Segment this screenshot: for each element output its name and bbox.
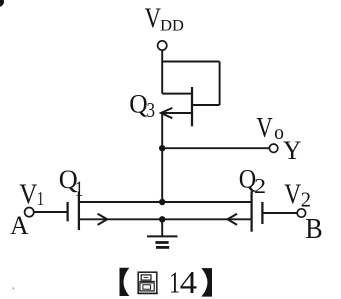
label Q3	[129, 88, 155, 122]
svg-text:4: 4	[180, 264, 197, 299]
node source rail junction	[159, 216, 165, 222]
terminal A	[25, 208, 34, 217]
caption bracket left	[120, 268, 130, 296]
svg-text:1: 1	[37, 188, 44, 210]
Q3 drain lead	[162, 93, 192, 95]
svg-text:1: 1	[169, 265, 180, 299]
arrow Q1 source current	[98, 214, 108, 225]
wire Q3 source down to drain rail	[161, 113, 163, 202]
caption bracket right	[201, 268, 212, 297]
caption character inner bottom box	[140, 283, 154, 291]
terminal VDD	[158, 41, 167, 50]
svg-text:V: V	[19, 179, 37, 211]
node drain rail junction	[159, 199, 165, 205]
svg-text:Y: Y	[283, 136, 301, 165]
label VDD	[145, 4, 185, 35]
svg-text:V: V	[284, 180, 301, 211]
arrow Q2 source current	[228, 214, 238, 225]
svg-text:DD: DD	[160, 16, 184, 34]
stray speck bottom-left	[12, 287, 14, 289]
Q2 gate lead wire	[262, 212, 297, 214]
svg-text:A: A	[10, 211, 28, 240]
label V2	[284, 180, 311, 212]
svg-text:V: V	[145, 4, 162, 35]
Q1 gate lead wire	[34, 211, 68, 213]
wire Q3 gate-drain loop top	[162, 61, 219, 63]
terminal Y	[269, 144, 277, 152]
ground bar 3	[156, 246, 169, 249]
wire output node to terminal Y	[162, 147, 269, 149]
caption number 14	[169, 264, 197, 299]
wire Q3 loop bottom to channel	[192, 104, 220, 106]
ground bar 2	[155, 241, 168, 244]
caption character inner top mouth	[141, 275, 151, 280]
ground stem	[161, 219, 163, 236]
stray mark top-left corner	[0, 0, 4, 7]
transistor Q2 channel	[250, 191, 252, 231]
svg-text:3: 3	[147, 98, 156, 122]
transistor Q1 channel	[78, 192, 80, 231]
svg-text:2: 2	[254, 174, 266, 198]
svg-text:1: 1	[75, 176, 84, 201]
transistor Q3 channel	[191, 87, 193, 126]
caption character innermost box	[143, 285, 151, 289]
caption character outer bottom bar	[137, 292, 157, 294]
Q3 source lead	[161, 112, 192, 114]
caption character tu (figure) outer box	[138, 272, 157, 293]
caption character tick in top mouth	[144, 277, 149, 279]
terminal B	[297, 209, 305, 217]
label V1	[19, 179, 44, 211]
node output junction	[159, 145, 165, 151]
wire VDD down to Q3 drain lead	[161, 50, 163, 93]
caption character middle stroke	[139, 280, 155, 282]
Q3 source arrowhead	[161, 108, 172, 118]
wire Q3 loop right side	[219, 62, 221, 106]
svg-text:2: 2	[301, 188, 311, 211]
label Q2	[239, 164, 266, 198]
svg-text:B: B	[305, 214, 322, 245]
drain rail Q1-Q2	[79, 201, 252, 203]
label Vo	[256, 112, 284, 144]
ground bar 1	[147, 235, 178, 237]
label Q1	[59, 164, 84, 201]
source rail Q1-Q2	[79, 218, 252, 220]
transistor Q2 gate bar	[261, 202, 263, 224]
svg-text:Q: Q	[129, 88, 147, 118]
transistor Q1 gate bar	[66, 202, 68, 221]
svg-text:V: V	[256, 112, 272, 144]
